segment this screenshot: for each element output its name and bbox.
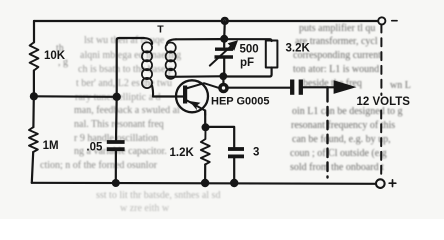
resistor 3.2K box xyxy=(266,41,278,68)
resistor 1M xyxy=(29,127,38,152)
transistor Q1 base bar xyxy=(183,86,187,104)
svg-text:3: 3 xyxy=(253,147,259,159)
wire cap 3 to bottom rail xyxy=(233,158,235,183)
node emitter junction xyxy=(202,123,210,131)
wire output row xyxy=(229,87,290,89)
wire left vertical below junction xyxy=(32,96,35,127)
transformer T secondary coil xyxy=(166,39,176,79)
wire secondary bottom to collector node xyxy=(170,75,220,78)
node tank top junction xyxy=(220,35,228,43)
node base-row left junction xyxy=(30,92,38,100)
node top rail tank junction xyxy=(221,17,229,25)
transistor Q1 emitter lead xyxy=(187,101,205,116)
wire left vertical bottom xyxy=(32,152,33,183)
node collector junction xyxy=(219,72,227,80)
svg-text:10K: 10K xyxy=(44,50,66,62)
wire dashed right supply boundary xyxy=(380,25,382,180)
wire dashed left supply boundary xyxy=(326,88,328,102)
svg-text:T: T xyxy=(157,24,164,36)
svg-text:HEP G0005: HEP G0005 xyxy=(211,95,270,107)
node feedback junction xyxy=(113,93,121,101)
wire tank top to 3.2K xyxy=(224,39,271,41)
wire top rail xyxy=(34,20,378,22)
wire emitter row to cap 3 xyxy=(206,127,235,147)
wire base lead from primary to transistor xyxy=(153,95,184,97)
transistor Q1 circle xyxy=(176,80,208,112)
transistor Q1 collector lead xyxy=(186,83,219,88)
wire 1.2K to bottom rail xyxy=(204,165,206,184)
node 1.2K bottom junction xyxy=(201,179,209,187)
node collector donut terminal xyxy=(220,85,227,92)
wire 3.2K bottom to collector node xyxy=(227,68,272,77)
svg-text:500: 500 xyxy=(240,44,259,56)
wire .05 to bottom rail xyxy=(115,151,117,183)
svg-text:pF: pF xyxy=(240,57,254,69)
capacitor .05 xyxy=(107,142,125,149)
wire rail to tank node xyxy=(223,21,226,39)
wire base row horizontal xyxy=(34,95,117,98)
svg-text:3.2K: 3.2K xyxy=(286,42,311,54)
wire secondary top to tank node xyxy=(176,38,220,40)
svg-text:1.2K: 1.2K xyxy=(170,147,195,159)
label minus xyxy=(392,20,397,22)
wire emitter vertical xyxy=(204,111,206,128)
capacitor output coupling xyxy=(292,80,301,95)
capacitor 500pF variable xyxy=(210,39,238,76)
resistor 1.2K xyxy=(201,127,210,164)
transformer T primary coil xyxy=(142,38,153,97)
transistor Q1 emitter arrow xyxy=(189,101,200,110)
arrow output xyxy=(334,80,357,94)
wire collector node to donut xyxy=(222,76,224,84)
bleed-through text background xyxy=(0,0,444,1)
resistor 10K xyxy=(30,42,39,70)
terminal minus top xyxy=(378,17,385,24)
label plus xyxy=(389,180,396,187)
wire bottom rail xyxy=(32,183,376,184)
wire coupling cap to arrow xyxy=(303,86,334,88)
terminal plus bottom xyxy=(376,179,385,188)
wire left vertical middle xyxy=(33,71,35,97)
capacitor 3 xyxy=(228,149,244,156)
wire feedback vertical to transformer top xyxy=(117,38,144,97)
svg-text:1M: 1M xyxy=(43,140,59,152)
wire left vertical top segment xyxy=(33,21,35,42)
node cap 3 bottom junction xyxy=(230,179,238,187)
node .05 bottom junction xyxy=(112,179,120,187)
svg-text:12 VOLTS: 12 VOLTS xyxy=(357,96,411,108)
wire .05 junction to cap xyxy=(115,97,118,141)
svg-text:.05: .05 xyxy=(86,142,103,154)
